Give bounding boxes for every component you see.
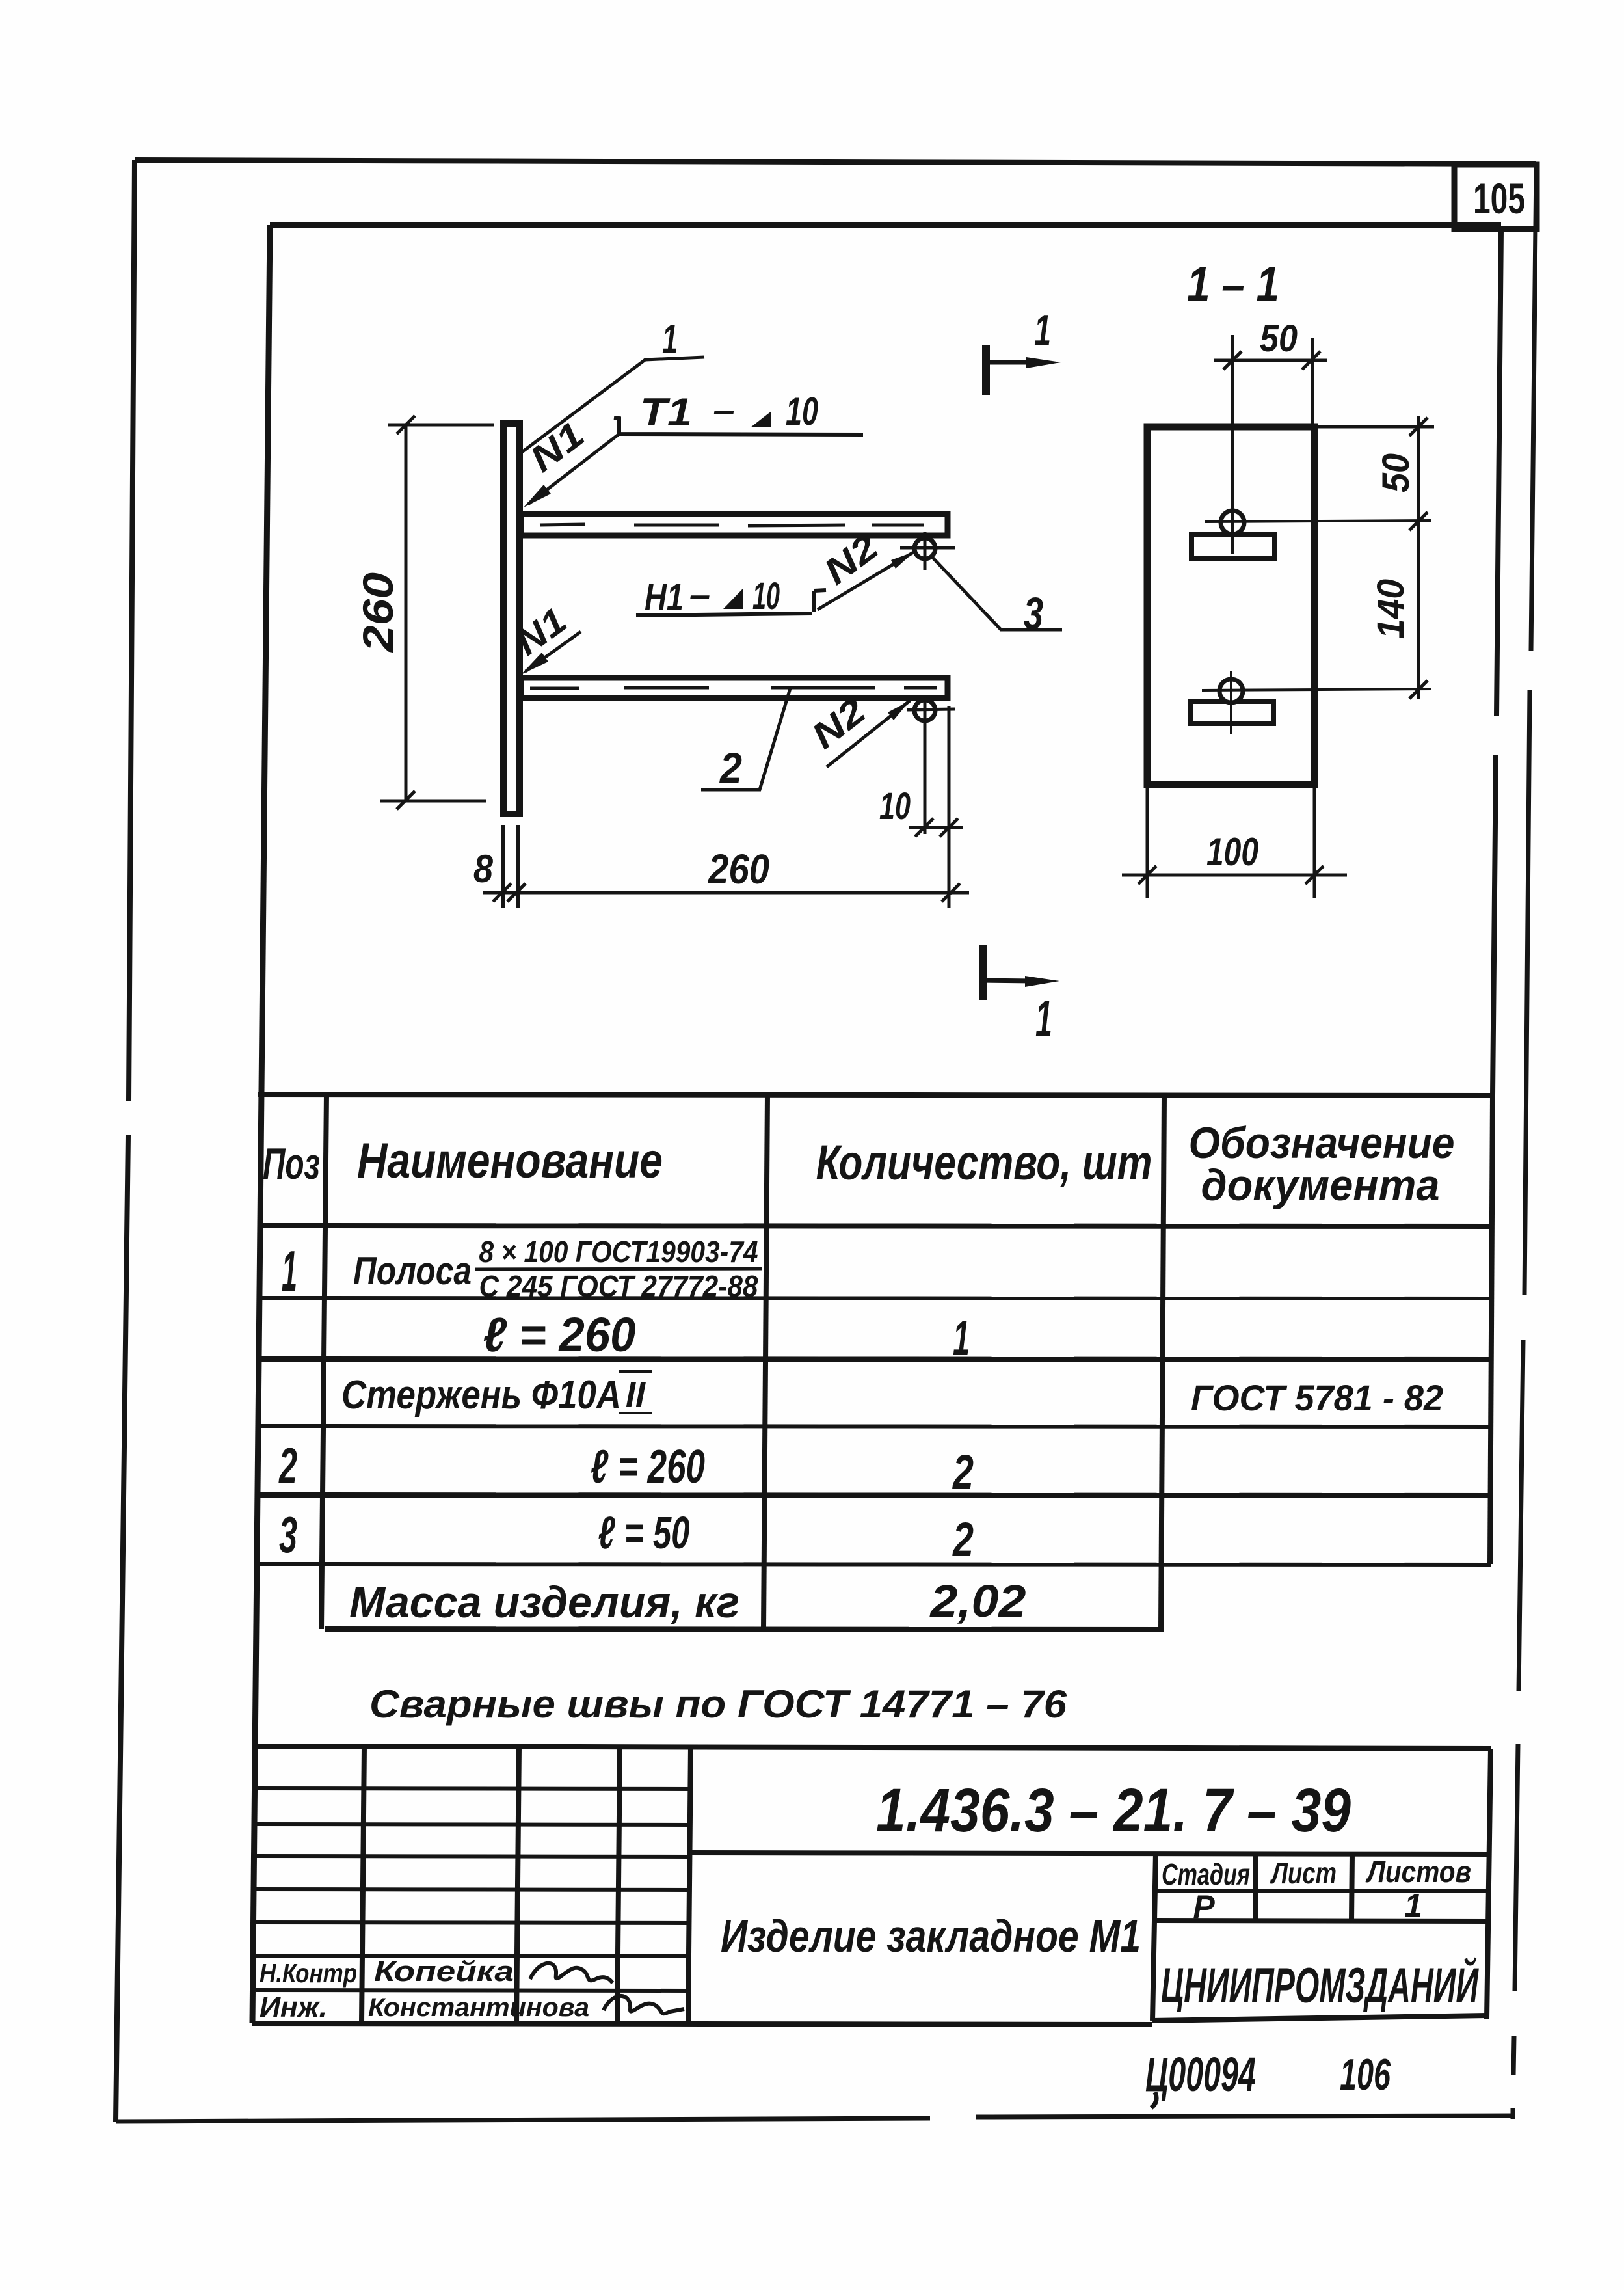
svg-text:Поз: Поз [263,1139,320,1189]
row line 1 [259,1298,1492,1299]
dimension 10 (rod end) [909,818,963,837]
plate item1 (side view) [503,424,520,814]
svg-text:2,02: 2,02 [929,1576,1026,1626]
vertical dimension 260 [380,416,494,809]
svg-text:документа: документа [1201,1161,1440,1210]
right end extension line [948,706,951,908]
svg-text:II: II [626,1375,646,1414]
svg-text:100: 100 [1206,830,1258,874]
svg-text:Р: Р [1193,1889,1215,1925]
svg-text:Масса изделия, кг: Масса изделия, кг [349,1578,739,1627]
svg-text:Т1: Т1 [640,390,692,434]
cniipromzdaniy box bottom [1152,1920,1487,2021]
anchor circle item3 top [914,538,935,559]
outer border left [116,160,135,2122]
dimension 50 top [1214,338,1327,431]
svg-text:ℓ = 260: ℓ = 260 [591,1441,705,1493]
svg-text:Н1: Н1 [645,576,684,619]
header bottom [259,1226,1492,1226]
outer border top [135,160,1536,164]
svg-text:1: 1 [1035,990,1052,1047]
svg-text:Инж.: Инж. [260,1991,327,2023]
inner frame top [270,222,1501,228]
dimension 100 bottom [1122,788,1347,898]
svg-text:3: 3 [1024,588,1043,639]
row line 3 [260,1426,1491,1427]
svg-text:8 × 100 ГОСТ19903-74: 8 × 100 ГОСТ19903-74 [479,1235,758,1269]
svg-text:1: 1 [1404,1887,1422,1924]
weld leader N1 bottom [526,632,581,671]
leader position 3 [931,556,1062,630]
title block top line [254,1746,1491,1749]
rod item2 top [521,514,948,535]
svg-text:10: 10 [752,575,780,617]
anchor circle item3 bottom [914,700,935,721]
stadiya table [1154,1853,1156,1920]
title block bottom line [252,2023,1152,2025]
svg-text:1 – 1: 1 – 1 [1187,257,1279,312]
weld leader N1 top [528,434,619,504]
section mark top [982,345,990,395]
svg-text:105: 105 [1473,174,1525,222]
svg-text:260: 260 [354,572,402,654]
svg-text:Стадия: Стадия [1162,1857,1250,1891]
svg-text:10: 10 [879,785,911,828]
plate edge extensions below [503,825,518,908]
rod section circle bottom [1219,679,1243,703]
horizontal dimension 260 and 8 [483,883,969,902]
svg-text:С 245 ГОСТ 27772-88: С 245 ГОСТ 27772-88 [479,1269,758,1303]
title block right edge [1487,1749,1491,2019]
row line 6 (partial) [325,1629,1164,1630]
weld label H1 underline + flag [636,590,826,615]
axis vertical [1231,335,1232,734]
line under big number [689,1853,1489,1854]
bar slot bottom [1190,701,1273,723]
sig col line 3 [617,1746,620,2023]
svg-text:Константинова: Константинова [368,1993,589,2022]
svg-text:Изделие закладное М1: Изделие закладное М1 [721,1911,1141,1961]
outer border bottom [116,2116,1515,2122]
leader position 1 [518,357,704,455]
svg-text:1: 1 [953,1311,970,1366]
rod item2 bottom [521,678,948,698]
bar slot top [1191,534,1275,558]
svg-text:Наименование: Наименование [357,1133,663,1189]
svg-text:Полоса: Полоса [353,1249,472,1293]
column doc [1161,1096,1164,1629]
plate item1 (section) [1147,427,1314,785]
sig col line 4 / title area left [688,1746,691,2023]
svg-text:1.436.3 – 21. 7 – 39: 1.436.3 – 21. 7 – 39 [876,1776,1351,1845]
svg-text:1: 1 [662,316,678,362]
column pos [321,1094,326,1629]
svg-text:Сварные швы по ГОСТ 14771 –: Сварные швы по ГОСТ 14771 – 76 [369,1682,1067,1726]
svg-text:3: 3 [279,1506,297,1563]
svg-text:10: 10 [786,390,818,433]
sig row lines [254,1788,690,1789]
svg-text:1: 1 [282,1239,297,1303]
inner frame left [252,225,270,2023]
svg-text:106: 106 [1340,2050,1391,2099]
right dimension chain 50/140 [1317,416,1434,699]
svg-text:Стержень Ф10А: Стержень Ф10А [341,1373,621,1418]
svg-text:50: 50 [1260,317,1298,360]
svg-text:2: 2 [952,1445,974,1499]
svg-text:ℓ = 260: ℓ = 260 [483,1308,636,1362]
row line 4 [260,1495,1491,1496]
svg-text:Ц00094: Ц00094 [1145,2047,1256,2101]
svg-text:–: – [713,388,734,431]
sig col line 1 [362,1746,364,2023]
axis horizontal bottom [1202,689,1431,690]
svg-text:2: 2 [278,1437,297,1494]
table right edge [1490,1096,1493,1564]
signature scribble 2 [604,1996,684,2014]
svg-text:ℓ = 50: ℓ = 50 [598,1507,690,1558]
svg-text:Количество, шт: Количество, шт [816,1135,1152,1191]
inner frame right [1493,229,1501,1096]
svg-text:2: 2 [719,744,742,792]
column qty [764,1096,767,1629]
weld leader N2 top [818,552,914,610]
svg-text:260: 260 [708,846,769,893]
weld leader N2 bottom [827,701,910,767]
svg-text:Копейка: Копейка [374,1956,514,1987]
svg-text:50: 50 [1375,453,1417,492]
axis horizontal top [1205,520,1431,522]
svg-text:Н.Контр: Н.Контр [260,1958,357,1988]
svg-text:2: 2 [952,1513,974,1567]
row line 2 [259,1359,1491,1360]
svg-text:8: 8 [473,847,494,891]
rod section circle top [1221,511,1244,534]
svg-text:Листов: Листов [1365,1855,1471,1889]
svg-text:Лист: Лист [1270,1856,1337,1890]
sig col line 2 [516,1746,519,2023]
svg-text:ЦНИИПРОМЗДАНИЙ: ЦНИИПРОМЗДАНИЙ [1161,1957,1479,2014]
table top [258,1094,1493,1096]
row line 5 [260,1564,1491,1565]
section mark bottom [979,945,987,1000]
svg-text:1: 1 [1034,306,1051,355]
svg-text:ГОСТ 5781 - 82: ГОСТ 5781 - 82 [1191,1377,1443,1418]
page number box [1454,165,1537,229]
svg-text:140: 140 [1370,579,1412,639]
outer border right (dashed) [1513,164,1536,2119]
signature scribble 1 [530,1963,613,1983]
weld label T1 flag [614,418,863,435]
svg-text:–: – [689,574,710,616]
